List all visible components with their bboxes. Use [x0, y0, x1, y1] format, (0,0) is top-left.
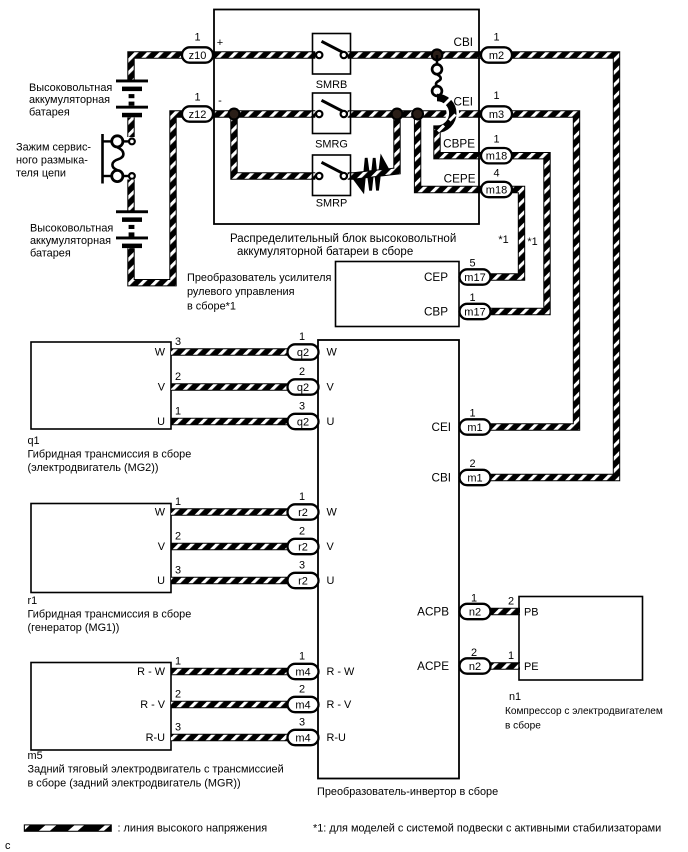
- svg-text:z10: z10: [189, 50, 207, 62]
- svg-text:W: W: [327, 347, 338, 359]
- svg-text:теля цепи: теля цепи: [16, 168, 66, 180]
- svg-text:(электродвигатель (MG2)): (электродвигатель (MG2)): [28, 462, 159, 474]
- connector m1 CEI: [432, 408, 491, 435]
- wire n2 ACPE to compressor: [490, 662, 520, 669]
- label service plug: [16, 142, 91, 180]
- svg-text:r2: r2: [298, 542, 308, 554]
- svg-text:U: U: [327, 416, 335, 428]
- svg-text:q2: q2: [297, 417, 309, 429]
- connector m2: [454, 32, 512, 63]
- connector z10: [182, 32, 213, 63]
- svg-text:аккумуляторной батареи в сборе: аккумуляторной батареи в сборе: [237, 246, 413, 258]
- svg-text:Преобразователь усилителя: Преобразователь усилителя: [187, 272, 331, 284]
- page marker c: [5, 840, 11, 852]
- wire MG1 V to r2: [171, 543, 288, 550]
- connector m18 CEPE: [444, 168, 512, 198]
- svg-text:CEPE: CEPE: [444, 173, 476, 186]
- svg-text:m4: m4: [295, 667, 310, 679]
- svg-text:2: 2: [175, 371, 181, 383]
- svg-text:m2: m2: [489, 50, 504, 62]
- svg-text:3: 3: [175, 565, 181, 577]
- svg-text:3: 3: [299, 560, 305, 572]
- svg-text:Гибридная трансмиссия в сборе: Гибридная трансмиссия в сборе: [28, 609, 192, 621]
- svg-text:1: 1: [471, 593, 477, 605]
- svg-text:3: 3: [299, 717, 305, 729]
- svg-text:m5: m5: [28, 750, 43, 762]
- wire z12 to SMRG: [213, 110, 315, 117]
- wire service plug to battery2: [127, 180, 134, 212]
- wire z12 branch to SMRP: [234, 114, 315, 176]
- label high-voltage battery 2: [30, 223, 113, 260]
- svg-text:Задний тяговый электродвигател: Задний тяговый электродвигатель с трансм…: [28, 764, 284, 776]
- wire n2 ACPB to compressor: [490, 608, 520, 615]
- svg-text:U: U: [157, 416, 165, 428]
- connector n2 ACPB: [417, 593, 538, 620]
- caption MGR: [28, 750, 284, 790]
- svg-text:3: 3: [175, 336, 181, 348]
- svg-text:3: 3: [299, 401, 305, 413]
- svg-text:ACPB: ACPB: [417, 606, 449, 619]
- connector m4 R-U: [175, 717, 346, 746]
- connector m4 R-W: [175, 651, 355, 680]
- svg-text:2: 2: [299, 526, 305, 538]
- svg-text:n1: n1: [509, 691, 521, 703]
- svg-text:Гибридная трансмиссия в сборе: Гибридная трансмиссия в сборе: [28, 449, 192, 461]
- junction dot CEI/CEPE: [412, 109, 423, 120]
- svg-text:1: 1: [508, 650, 514, 662]
- battery B2 high-voltage battery symbol: [116, 210, 148, 248]
- svg-text:в сборе (задний электродвигате: в сборе (задний электродвигатель (MGR)): [28, 778, 241, 790]
- svg-text:1: 1: [299, 491, 305, 503]
- svg-text:m18: m18: [486, 185, 507, 197]
- svg-text:1: 1: [194, 92, 200, 104]
- wire MG1 U to r2: [171, 577, 288, 584]
- svg-text:2: 2: [175, 689, 181, 701]
- svg-text:1: 1: [299, 651, 305, 663]
- svg-text:U: U: [327, 575, 335, 587]
- svg-text:R - V: R - V: [327, 699, 353, 711]
- junction dot CEI/resistor: [392, 109, 403, 120]
- svg-text:Преобразователь-инвертор в сбо: Преобразователь-инвертор в сборе: [317, 786, 498, 798]
- svg-text:PE: PE: [524, 661, 539, 673]
- svg-text:m18: m18: [486, 151, 507, 163]
- svg-text:Распределительный блок высоков: Распределительный блок высоковольтной: [230, 233, 456, 245]
- svg-text:Компрессор с электродвигателем: Компрессор с электродвигателем: [505, 706, 663, 717]
- connector n2 ACPE: [417, 647, 538, 674]
- svg-text:2: 2: [299, 366, 305, 378]
- connector q2 U: [175, 401, 335, 430]
- connector r2 V: [175, 526, 335, 555]
- svg-text:2: 2: [175, 531, 181, 543]
- wire MGR R-U to m4: [171, 734, 288, 741]
- svg-text:SMRB: SMRB: [316, 79, 347, 91]
- svg-text:R - W: R - W: [327, 666, 356, 678]
- svg-text:1: 1: [493, 90, 499, 102]
- wire CEPE branch from CEI line to m18: [418, 114, 481, 190]
- svg-text:R-U: R-U: [327, 732, 346, 744]
- connector m17 CEP: [424, 258, 491, 285]
- svg-text:PB: PB: [524, 607, 539, 619]
- svg-text:V: V: [327, 541, 335, 553]
- svg-text:в сборе: в сборе: [505, 720, 541, 732]
- wire SMRG to connector m3 (CEI): [348, 110, 481, 117]
- connector m1 CBI: [432, 458, 491, 485]
- svg-text:аккумуляторная: аккумуляторная: [30, 235, 111, 247]
- MG2 motor box: [31, 342, 171, 429]
- minus terminal label: [218, 95, 222, 107]
- service plug grip (Зажим сервисного размыкателя цепи): [103, 134, 135, 184]
- wire battery2 to z12: [131, 114, 182, 283]
- wire z10 to SMRB: [213, 51, 315, 58]
- svg-text:q2: q2: [297, 382, 309, 394]
- power steering converter box: [336, 262, 460, 327]
- svg-text:z12: z12: [189, 109, 207, 121]
- svg-text:1: 1: [493, 134, 499, 146]
- wire m18 CBPE to m17 CBP: [490, 156, 547, 312]
- svg-text:1: 1: [175, 406, 181, 418]
- svg-text:m4: m4: [295, 700, 310, 712]
- wire z10 to battery1: [131, 55, 182, 80]
- svg-text:W: W: [155, 507, 166, 519]
- svg-text:m3: m3: [489, 109, 504, 121]
- svg-text:2: 2: [508, 596, 514, 608]
- svg-text:V: V: [327, 382, 335, 394]
- distribution block box: [214, 10, 479, 225]
- wire MGR R-V to m4: [171, 701, 288, 708]
- svg-text:c: c: [5, 840, 11, 852]
- wire arc hop CBI branch over CEI line, down to CBPE m18: [437, 98, 481, 156]
- legend high-voltage line sample: [24, 824, 112, 831]
- svg-text:1: 1: [175, 656, 181, 668]
- svg-text:Зажим сервис-: Зажим сервис-: [16, 142, 91, 154]
- caption distribution block: [230, 233, 456, 258]
- svg-text:m17: m17: [464, 272, 485, 284]
- inverter assembly box: [318, 340, 459, 779]
- caption inverter: [317, 786, 498, 798]
- note *1 footnote: [313, 823, 661, 835]
- MGR rear motor box: [31, 663, 171, 751]
- svg-text:CBP: CBP: [424, 306, 448, 319]
- svg-text:4: 4: [493, 168, 499, 180]
- svg-text:ACPE: ACPE: [417, 660, 449, 673]
- relay SMRG: [313, 93, 351, 151]
- svg-text:r2: r2: [298, 507, 308, 519]
- relay SMRP: [313, 155, 351, 210]
- svg-text:батарея: батарея: [30, 248, 71, 260]
- svg-text:батарея: батарея: [29, 107, 70, 119]
- svg-text:r2: r2: [298, 576, 308, 588]
- svg-text:Высоковольтная: Высоковольтная: [30, 223, 113, 235]
- svg-text:SMRP: SMRP: [316, 198, 347, 210]
- caption MG1: [28, 595, 192, 634]
- svg-text:рулевого управления: рулевого управления: [187, 286, 295, 298]
- svg-text:1: 1: [469, 292, 475, 304]
- svg-text:m17: m17: [464, 307, 485, 319]
- wire MG2 U to q2: [171, 418, 288, 425]
- wire MGR R-W to m4: [171, 668, 288, 675]
- svg-text:q1: q1: [28, 435, 40, 447]
- connector m4 R-V: [175, 684, 352, 713]
- note *1 labels on CBPE/CEPE runs: [498, 234, 537, 248]
- connector r2 U: [175, 560, 335, 589]
- svg-text:R-U: R-U: [146, 732, 165, 744]
- svg-text:-: -: [218, 95, 222, 107]
- svg-text:CEP: CEP: [424, 271, 448, 284]
- wire m18 CEPE to m17 CEP: [490, 190, 522, 278]
- compressor box: [519, 597, 643, 681]
- connector m17 CBP: [424, 292, 491, 319]
- svg-text:1: 1: [493, 32, 499, 44]
- connector m3: [454, 90, 512, 122]
- svg-text:в сборе*1: в сборе*1: [187, 301, 236, 313]
- svg-text:CBI: CBI: [432, 472, 451, 485]
- svg-text:CEI: CEI: [432, 421, 451, 434]
- svg-text:W: W: [327, 507, 338, 519]
- wire MG1 W to r2: [171, 508, 288, 515]
- interlock ring lower: [432, 86, 442, 96]
- wire m2 to m1 (CBI right loop): [490, 55, 617, 478]
- plus terminal label: [217, 37, 223, 49]
- battery B1 high-voltage battery symbol: [116, 80, 148, 118]
- svg-text:Высоковольтная: Высоковольтная: [29, 82, 112, 94]
- connector z12: [182, 92, 213, 122]
- svg-text:CEI: CEI: [454, 96, 473, 109]
- svg-text:2: 2: [299, 684, 305, 696]
- svg-text:CBI: CBI: [454, 36, 473, 49]
- junction dot on CBI line: [432, 50, 443, 61]
- svg-text:ного размыка-: ного размыка-: [16, 155, 88, 167]
- svg-text:5: 5: [469, 258, 475, 270]
- svg-text:R - V: R - V: [140, 699, 166, 711]
- svg-text:3: 3: [175, 722, 181, 734]
- svg-text:n2: n2: [469, 607, 481, 619]
- label high-voltage battery 1: [29, 82, 112, 119]
- wire MG2 W to q2: [171, 348, 288, 355]
- wire SMRB to connector m2 (CBI): [348, 51, 481, 58]
- caption MG2: [28, 435, 192, 474]
- svg-text:1: 1: [469, 408, 475, 420]
- svg-text:m4: m4: [295, 733, 310, 745]
- svg-text:m1: m1: [467, 422, 482, 434]
- svg-text:1: 1: [175, 496, 181, 508]
- svg-text:*1: *1: [527, 236, 537, 248]
- junction dot z12/SMRP: [229, 109, 240, 120]
- svg-text:+: +: [217, 37, 223, 49]
- wire m3 to m1 (CEI right loop): [490, 114, 577, 427]
- wire SMRP through resistor to CEI line: [348, 114, 397, 176]
- svg-text:CBPE: CBPE: [443, 138, 475, 151]
- svg-text:1: 1: [194, 32, 200, 44]
- svg-text:r1: r1: [28, 595, 38, 607]
- interlock ring upper: [432, 55, 442, 74]
- svg-text:1: 1: [299, 331, 305, 343]
- resistor zigzag on SMRP line: [353, 158, 390, 191]
- wire battery1 to service plug: [127, 118, 134, 138]
- connector r2 W: [175, 491, 338, 520]
- svg-text:W: W: [155, 347, 166, 359]
- connector q2 V: [175, 366, 335, 395]
- relay SMRB: [313, 34, 351, 92]
- connector m18 CBPE: [443, 134, 512, 164]
- svg-text:R - W: R - W: [137, 666, 166, 678]
- svg-text:V: V: [158, 382, 166, 394]
- svg-text:(генератор (MG1)): (генератор (MG1)): [28, 622, 120, 634]
- svg-text:m1: m1: [467, 473, 482, 485]
- svg-text:2: 2: [469, 458, 475, 470]
- svg-text:V: V: [158, 541, 166, 553]
- legend text: [118, 823, 268, 835]
- svg-text:аккумуляторная: аккумуляторная: [29, 94, 110, 106]
- caption power steering converter: [187, 272, 331, 313]
- caption compressor: [505, 691, 663, 732]
- svg-text:n2: n2: [469, 661, 481, 673]
- svg-text:SMRG: SMRG: [315, 139, 348, 151]
- svg-text:q2: q2: [297, 347, 309, 359]
- svg-text:: линия высокого напряжения: : линия высокого напряжения: [118, 823, 268, 835]
- svg-text:U: U: [157, 575, 165, 587]
- connector q2 W: [175, 331, 338, 360]
- interlock link squiggle: [436, 74, 441, 86]
- svg-text:*1: *1: [498, 234, 508, 246]
- svg-text:2: 2: [471, 647, 477, 659]
- svg-text:*1: для моделей с системой под: *1: для моделей с системой подвески с ак…: [313, 823, 661, 835]
- MG1 generator box: [31, 504, 171, 593]
- wire MG2 V to q2: [171, 383, 288, 390]
